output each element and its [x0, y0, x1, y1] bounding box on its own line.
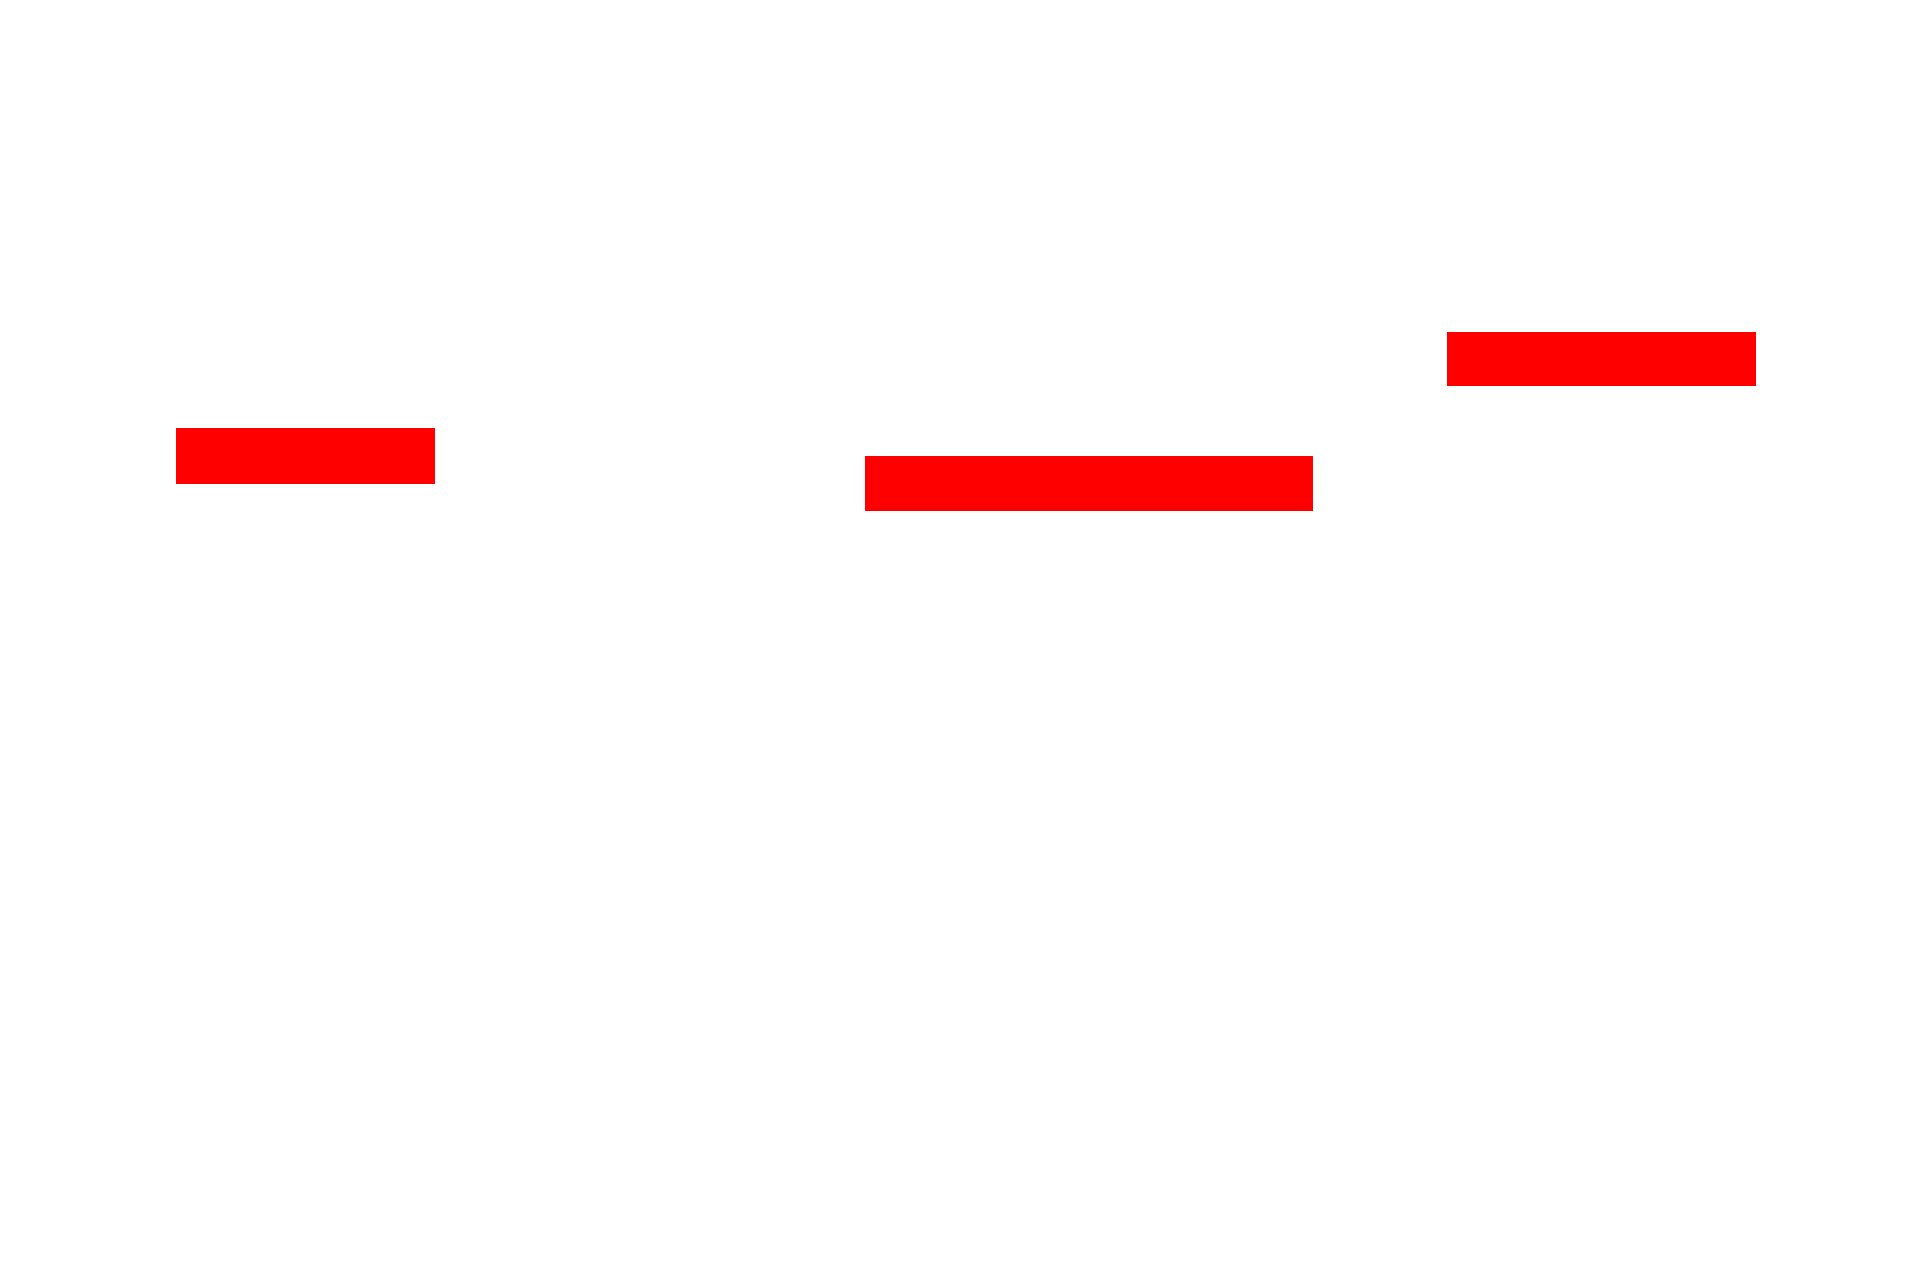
red highlight box 2 (center)	[865, 456, 1313, 511]
red highlight box 3 (upper right)	[1447, 332, 1756, 386]
red highlight box 1 (left)	[176, 428, 435, 484]
